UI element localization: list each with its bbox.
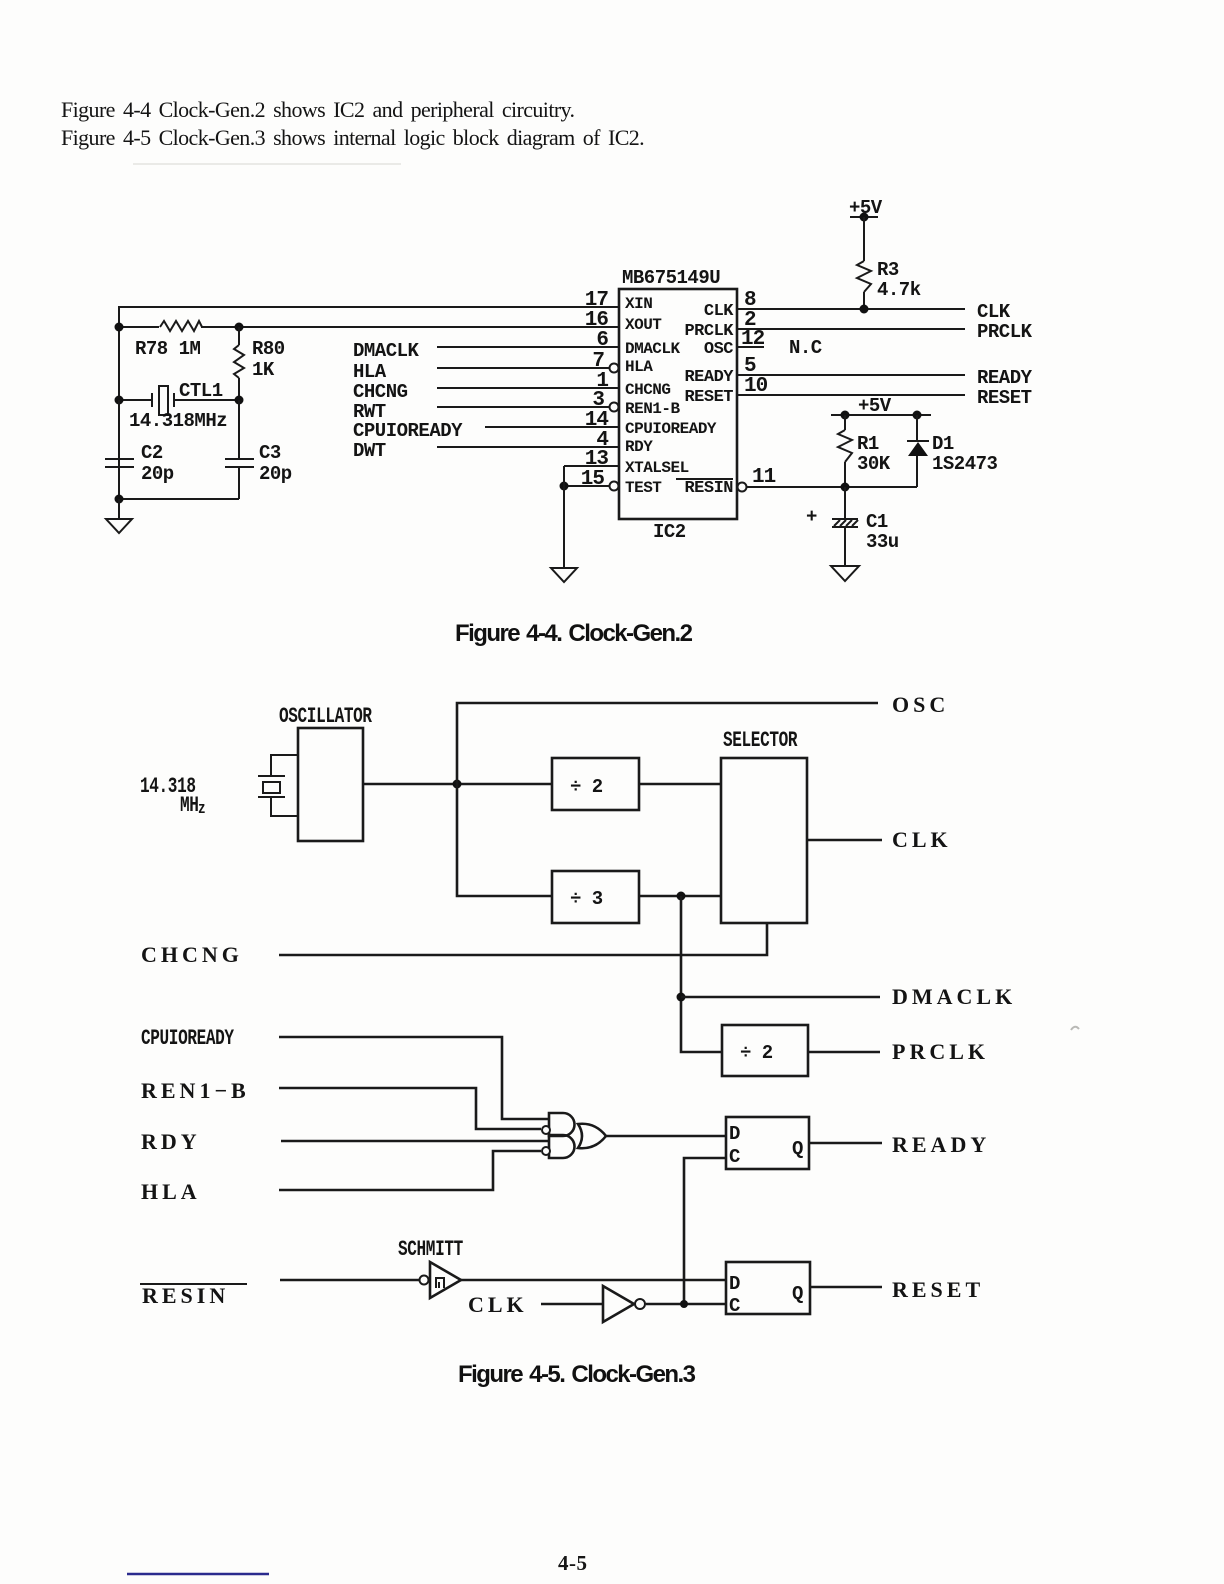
wire HLA bbox=[437, 367, 610, 369]
svg-text:N.C: N.C bbox=[789, 337, 822, 359]
power +5V second bar bbox=[831, 414, 931, 416]
svg-text:OSC: OSC bbox=[892, 692, 949, 717]
svg-text:Figure 4-4 Clock-Gen.2 shows I: Figure 4-4 Clock-Gen.2 shows IC2 and per… bbox=[61, 97, 575, 122]
svg-text:12: 12 bbox=[741, 328, 765, 351]
svg-text:IC2: IC2 bbox=[653, 521, 686, 543]
svg-text:DMACLK: DMACLK bbox=[892, 984, 1016, 1009]
diode D1 bbox=[907, 415, 929, 487]
svg-text:D: D bbox=[729, 1123, 740, 1145]
wire bottom net bbox=[119, 498, 239, 500]
node bottom junction bbox=[115, 495, 124, 504]
capacitor C1 polarized bbox=[832, 487, 858, 527]
svg-text:+5V: +5V bbox=[858, 395, 892, 417]
bottom blue rule bbox=[127, 1573, 269, 1576]
svg-text:CLK: CLK bbox=[704, 302, 734, 321]
svg-text:PRCLK: PRCLK bbox=[892, 1039, 989, 1064]
wire RESIN net bbox=[746, 486, 917, 488]
svg-text:Figure 4-5 Clock-Gen.3 shows i: Figure 4-5 Clock-Gen.3 shows internal lo… bbox=[61, 125, 644, 150]
schmitt bubble bbox=[420, 1276, 429, 1285]
resistor R3 bbox=[863, 217, 865, 309]
svg-text:DWT: DWT bbox=[353, 440, 386, 462]
wire XTALSEL bbox=[564, 465, 619, 467]
resistor R78 bbox=[160, 321, 202, 331]
svg-text:z: z bbox=[198, 798, 205, 818]
wire CPUIOREADY fig5 bbox=[279, 1037, 549, 1119]
svg-text:20p: 20p bbox=[141, 463, 174, 485]
node R80 top junction bbox=[235, 323, 244, 332]
svg-text:OSCILLATOR: OSCILLATOR bbox=[279, 704, 372, 729]
wire C1 to ground bbox=[844, 527, 846, 566]
wire RESET out bbox=[737, 394, 965, 396]
ground GND1 bbox=[106, 499, 132, 533]
pin bubble TEST bbox=[610, 482, 619, 491]
wire CPUIOREADY bbox=[485, 426, 619, 428]
svg-text:Q: Q bbox=[792, 1283, 803, 1305]
node DMACLK junction bbox=[677, 993, 686, 1002]
wire div3 to dmaclk/prclk riser bbox=[681, 896, 722, 1052]
svg-text:D: D bbox=[729, 1273, 740, 1295]
svg-text:R3: R3 bbox=[877, 259, 899, 281]
capacitor C3 bbox=[225, 400, 254, 499]
svg-text:Q: Q bbox=[792, 1138, 803, 1160]
block divide-by-2 PRCLK bbox=[722, 1025, 808, 1076]
wire div2 to selector bbox=[639, 783, 721, 786]
svg-text:10: 10 bbox=[744, 375, 768, 398]
gate AND2 bbox=[549, 1135, 575, 1158]
pin bubble REN1-B bbox=[610, 403, 619, 412]
pin bubble HLA bbox=[610, 364, 619, 373]
node TEST junction bbox=[560, 482, 569, 491]
node osc junction bbox=[453, 780, 462, 789]
svg-text:HLA: HLA bbox=[141, 1179, 201, 1204]
svg-text:RESIN: RESIN bbox=[684, 479, 733, 498]
wire RWT bbox=[437, 406, 610, 408]
svg-text:XTALSEL: XTALSEL bbox=[625, 459, 689, 477]
wire PRCLK out bbox=[808, 1051, 880, 1054]
wire to div3 bbox=[457, 784, 552, 896]
wire XTALSEL-TEST ground riser bbox=[563, 466, 565, 568]
svg-text:RESET: RESET bbox=[977, 387, 1032, 409]
wire inverter out bbox=[646, 1303, 726, 1306]
svg-text:C1: C1 bbox=[866, 511, 888, 533]
wire div3 to selector bbox=[639, 895, 721, 898]
wire Q READY out bbox=[809, 1142, 882, 1145]
wire CLK to inverter bbox=[541, 1303, 603, 1306]
svg-text:MB675149U: MB675149U bbox=[622, 267, 720, 289]
node crystal-left junction bbox=[115, 396, 124, 405]
wire crystal net bbox=[119, 399, 239, 401]
svg-text:READY: READY bbox=[892, 1132, 990, 1157]
svg-text:20p: 20p bbox=[259, 463, 292, 485]
wire CLK out fig5 bbox=[807, 839, 882, 842]
block divide-by-2 bbox=[552, 758, 639, 810]
svg-text:RDY: RDY bbox=[141, 1129, 201, 1154]
svg-text:Figure 4-5. Clock-Gen.3: Figure 4-5. Clock-Gen.3 bbox=[458, 1361, 696, 1388]
IC U=IC2 box bbox=[619, 289, 737, 519]
wire CHCNG bbox=[437, 387, 619, 389]
node R1 top junction bbox=[841, 411, 850, 420]
node RESIN-C1 junction bbox=[841, 483, 850, 492]
svg-text:TEST: TEST bbox=[625, 479, 662, 497]
flip-flop READY bbox=[726, 1117, 809, 1169]
pin bubble RESIN bbox=[738, 483, 747, 492]
svg-text:+: + bbox=[806, 506, 817, 528]
wire DMACLK bbox=[437, 346, 619, 348]
svg-text:÷ 2: ÷ 2 bbox=[740, 1042, 773, 1064]
svg-text:R1: R1 bbox=[857, 433, 879, 455]
svg-text:PRCLK: PRCLK bbox=[977, 321, 1033, 343]
wire REN1-B fig5 bbox=[279, 1088, 541, 1129]
svg-text:4-5: 4-5 bbox=[558, 1551, 588, 1575]
svg-text:CHCNG: CHCNG bbox=[353, 381, 408, 403]
svg-text:CPUIOREADY: CPUIOREADY bbox=[353, 420, 463, 442]
wire TEST bbox=[564, 485, 610, 487]
svg-text:÷ 2: ÷ 2 bbox=[570, 776, 603, 798]
wire RDY fig5 bbox=[281, 1140, 549, 1143]
node clk junction bbox=[680, 1300, 688, 1308]
wire Q RESET out bbox=[810, 1286, 882, 1289]
svg-text:R78 1M: R78 1M bbox=[135, 338, 201, 360]
wire OSC output bbox=[363, 783, 552, 786]
ground GND2 bbox=[551, 568, 577, 582]
wire DWT bbox=[437, 446, 619, 448]
svg-text:R80: R80 bbox=[252, 338, 285, 360]
resistor R1 bbox=[844, 415, 846, 487]
wire READY out bbox=[737, 374, 965, 376]
power +5V top bar bbox=[850, 216, 878, 218]
resistor R80 bbox=[238, 327, 240, 400]
inverter bubble bbox=[635, 1299, 645, 1309]
svg-text:C: C bbox=[729, 1146, 740, 1168]
svg-text:CPUIOREADY: CPUIOREADY bbox=[141, 1026, 234, 1051]
overline RESIN net bbox=[140, 1283, 247, 1285]
svg-text:C3: C3 bbox=[259, 442, 281, 464]
block OSCILLATOR bbox=[298, 728, 363, 841]
svg-text:SELECTOR: SELECTOR bbox=[723, 728, 798, 753]
inverter triangle bbox=[603, 1286, 634, 1322]
svg-text:REN1−B: REN1−B bbox=[141, 1078, 250, 1103]
wire OSC top bbox=[457, 703, 878, 784]
svg-text:XOUT: XOUT bbox=[625, 316, 662, 334]
svg-text:DMACLK: DMACLK bbox=[625, 340, 681, 358]
svg-text:1S2473: 1S2473 bbox=[932, 453, 998, 475]
gate OR bbox=[578, 1124, 606, 1149]
svg-text:11: 11 bbox=[752, 466, 776, 489]
svg-text:CHCNG: CHCNG bbox=[141, 942, 243, 967]
node crystal-right junction bbox=[235, 396, 244, 405]
svg-text:Figure 4-4. Clock-Gen.2: Figure 4-4. Clock-Gen.2 bbox=[455, 620, 693, 647]
node CLK junction bbox=[860, 305, 869, 314]
wire RESIN fig5 bbox=[280, 1279, 419, 1282]
svg-text:15: 15 bbox=[581, 468, 605, 491]
overline RESIN pin bbox=[676, 478, 733, 480]
svg-text:SCHMITT: SCHMITT bbox=[398, 1237, 463, 1262]
svg-text:REN1-B: REN1-B bbox=[625, 400, 681, 418]
svg-text:DMACLK: DMACLK bbox=[353, 340, 420, 362]
svg-text:HLA: HLA bbox=[625, 358, 653, 376]
svg-text:C: C bbox=[729, 1295, 740, 1317]
svg-text:1K: 1K bbox=[252, 359, 275, 381]
svg-text:RESIN: RESIN bbox=[142, 1283, 229, 1308]
wire XIN net top bbox=[119, 307, 619, 499]
svg-text:RDY: RDY bbox=[625, 438, 653, 456]
svg-text:6: 6 bbox=[596, 329, 608, 352]
crystal CTL1 bbox=[152, 386, 174, 415]
wire OR to READY FF bbox=[606, 1135, 726, 1138]
svg-text:CTL1: CTL1 bbox=[179, 380, 223, 402]
wire CHCNG bbox=[279, 923, 767, 955]
svg-text:4.7k: 4.7k bbox=[877, 279, 921, 301]
svg-text:30K: 30K bbox=[857, 453, 891, 475]
svg-text:33u: 33u bbox=[866, 531, 899, 553]
schmitt trigger triangle bbox=[430, 1262, 461, 1298]
svg-text:OSC: OSC bbox=[704, 340, 733, 359]
wire HLA fig5 bbox=[279, 1151, 541, 1190]
svg-text:READY: READY bbox=[684, 368, 734, 387]
scan artifact tick right of PRCLK box bbox=[1071, 1027, 1079, 1030]
block SELECTOR bbox=[721, 758, 807, 923]
wire C input ready bbox=[684, 1158, 726, 1304]
svg-text:CHCNG: CHCNG bbox=[625, 381, 671, 399]
bubble HLA input bbox=[542, 1147, 550, 1155]
svg-text:XIN: XIN bbox=[625, 295, 652, 313]
node XOUT-left junction bbox=[115, 323, 124, 332]
crystal X1 of oscillator bbox=[258, 755, 298, 816]
schmitt hysteresis mark bbox=[436, 1278, 444, 1288]
svg-text:CLK: CLK bbox=[468, 1292, 528, 1317]
block divide-by-3 bbox=[552, 871, 639, 923]
wire DMACLK out bbox=[681, 996, 880, 999]
svg-text:CLK: CLK bbox=[892, 827, 952, 852]
gate AND1 bbox=[549, 1113, 575, 1136]
svg-text:PRCLK: PRCLK bbox=[684, 322, 734, 341]
svg-text:RESET: RESET bbox=[892, 1277, 984, 1302]
node div3 junction bbox=[677, 892, 686, 901]
wire schmitt out to D bbox=[461, 1279, 726, 1282]
wire OSC stub N.C bbox=[737, 346, 764, 348]
capacitor C2 bbox=[105, 400, 134, 499]
svg-text:14.318MHz: 14.318MHz bbox=[129, 410, 227, 432]
svg-text:÷ 3: ÷ 3 bbox=[570, 888, 603, 910]
svg-text:D1: D1 bbox=[932, 433, 954, 455]
node +5V top junction bbox=[860, 213, 869, 222]
wire CLK out bbox=[737, 308, 965, 310]
svg-text:C2: C2 bbox=[141, 442, 163, 464]
svg-text:CLK: CLK bbox=[977, 301, 1011, 323]
ground GND3 bbox=[831, 566, 859, 581]
node D1 top junction bbox=[913, 411, 922, 420]
svg-text:CPUIOREADY: CPUIOREADY bbox=[625, 420, 717, 438]
svg-text:MH: MH bbox=[180, 793, 199, 818]
wire PRCLK out bbox=[737, 328, 965, 330]
svg-text:READY: READY bbox=[977, 367, 1033, 389]
wire XOUT net bbox=[119, 326, 619, 328]
svg-text:RESET: RESET bbox=[684, 388, 733, 407]
bubble REN1-B input bbox=[542, 1126, 550, 1134]
scan artifact smudge under header bbox=[133, 163, 401, 165]
svg-text:HLA: HLA bbox=[353, 361, 387, 383]
flip-flop RESET bbox=[726, 1262, 810, 1314]
